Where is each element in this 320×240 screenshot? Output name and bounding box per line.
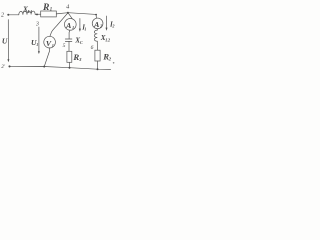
wire xyxy=(68,62,70,67)
ammeter A2 xyxy=(92,18,103,29)
inductor XL1 xyxy=(19,11,35,15)
svg-text:U: U xyxy=(2,36,8,45)
voltage arrow U xyxy=(7,20,9,60)
wire xyxy=(96,29,98,30)
svg-text:R: R xyxy=(42,2,50,13)
svg-text:1: 1 xyxy=(36,42,38,47)
wire xyxy=(68,41,70,51)
wire xyxy=(96,41,98,50)
svg-text:1: 1 xyxy=(50,8,52,13)
terminal node bottom-left xyxy=(8,65,10,67)
voltmeter V1 xyxy=(44,36,56,48)
capacitor XC xyxy=(65,38,72,40)
wire V1 to bottom xyxy=(44,48,49,67)
bottom wire xyxy=(10,67,111,70)
wire xyxy=(35,13,41,15)
inductor XL2 xyxy=(94,30,97,41)
resistor R3 xyxy=(67,51,72,62)
svg-text:A: A xyxy=(65,21,71,30)
svg-text:C: C xyxy=(80,40,83,45)
current arrow I2 xyxy=(106,16,108,28)
wire A1 to XC xyxy=(68,30,71,39)
svg-text:1: 1 xyxy=(72,25,74,30)
svg-text:2: 2 xyxy=(111,24,114,29)
wire xyxy=(97,61,99,69)
node 3 xyxy=(36,13,38,15)
junction dot xyxy=(43,66,45,68)
svg-text:L1: L1 xyxy=(27,9,33,14)
junction dot xyxy=(69,67,71,69)
ammeter A1 xyxy=(64,19,76,31)
corner junction xyxy=(95,14,97,16)
svg-text:1: 1 xyxy=(52,43,54,48)
current arrow I1 xyxy=(79,19,81,30)
resistor R2 xyxy=(95,50,100,61)
terminal node top-left xyxy=(7,14,9,16)
svg-text:A: A xyxy=(93,20,99,29)
wire xyxy=(8,14,18,16)
wire to A2 xyxy=(68,13,97,19)
voltage arrow U1 xyxy=(38,27,40,52)
speck xyxy=(113,62,115,64)
svg-text:L2: L2 xyxy=(104,37,110,42)
svg-text:5: 5 xyxy=(63,43,66,49)
svg-text:6: 6 xyxy=(91,45,94,51)
node 4 xyxy=(67,12,69,14)
svg-text:2: 2 xyxy=(1,12,4,18)
wire node4 to V1 xyxy=(50,13,68,37)
svg-text:3: 3 xyxy=(35,21,39,27)
resistor R1 xyxy=(41,11,57,17)
wire xyxy=(56,13,68,14)
svg-text:1: 1 xyxy=(84,27,86,32)
junction dot xyxy=(97,68,99,70)
wire node4 to A1 xyxy=(68,13,72,19)
